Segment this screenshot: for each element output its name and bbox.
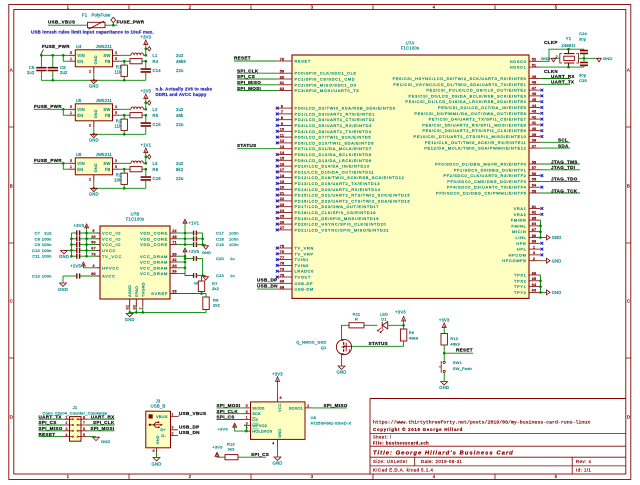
svg-text:6: 6	[281, 104, 283, 108]
net label RESET (J1)	[39, 432, 64, 437]
net label SPI_CS	[237, 74, 277, 79]
svg-text:D: D	[10, 415, 13, 420]
svg-text:DDR1 and AVCC happy: DDR1 and AVCC happy	[156, 92, 207, 97]
svg-text:Date: 2019-08-31: Date: 2019-08-31	[421, 459, 463, 464]
svg-text:SPI_CS: SPI_CS	[217, 415, 235, 420]
svg-text:GND: GND	[552, 258, 562, 263]
svg-text:1: 1	[70, 56, 72, 61]
svg-text:30p: 30p	[579, 73, 587, 78]
net label SPI_MOSI (U8)	[217, 403, 245, 408]
svg-text:PD4/LCD_D6/UART1_TX/EINTD4: PD4/LCD_D6/UART1_TX/EINTD4	[295, 129, 372, 134]
ground (U7B left caps)	[59, 250, 71, 259]
ground (HPCOMFB)	[541, 258, 562, 263]
svg-text:71: 71	[172, 241, 177, 245]
svg-text:55: 55	[532, 178, 537, 182]
svg-text:VRA1: VRA1	[514, 206, 527, 211]
svg-text:PD19/LCD_DE/SPI0_MOSI/EINTD19: PD19/LCD_DE/SPI0_MOSI/EINTD19	[295, 216, 380, 221]
net label SPI_MISO (J1)	[39, 426, 64, 431]
wire U7B VCC_DRAM rail	[177, 255, 187, 274]
power +1V1 (U7B core rail)	[183, 219, 200, 233]
svg-text:22: 22	[280, 197, 285, 201]
svg-text:+1V1: +1V1	[140, 143, 151, 148]
wire R11 to LED	[364, 324, 378, 326]
svg-text:11: 11	[280, 133, 284, 137]
svg-text:22u: 22u	[176, 122, 184, 127]
ground symbol under U5	[89, 134, 99, 142]
svg-text:C24: C24	[579, 31, 588, 36]
net label FUSE_PWR (U4)	[40, 44, 70, 55]
wire SVREF	[177, 292, 207, 295]
svg-text:2: 2	[89, 176, 91, 181]
IC U7B F1C100s (power pins)	[91, 212, 177, 310]
resistor R7	[198, 276, 219, 294]
svg-text:PD5/LCD_D7/TWI1_SCK/EINTD5: PD5/LCD_D7/TWI1_SCK/EINTD5	[295, 135, 372, 140]
svg-text:25: 25	[280, 215, 285, 219]
svg-text:D: D	[627, 415, 630, 420]
capacitor C23	[185, 273, 235, 278]
svg-text:+2V5: +2V5	[140, 89, 151, 94]
svg-text:+3V3: +3V3	[439, 318, 450, 323]
svg-text:86: 86	[532, 234, 537, 238]
svg-text:R6: R6	[153, 167, 159, 172]
wire U7B bottom grounds	[128, 307, 144, 314]
svg-text:22u: 22u	[176, 176, 184, 181]
power flag at +2V5	[145, 101, 151, 105]
net label SPI_MOSI	[237, 86, 277, 91]
svg-text:C11: C11	[32, 254, 40, 259]
svg-text:L2: L2	[153, 107, 159, 112]
svg-text:GND: GND	[89, 138, 99, 143]
svg-text:PD16/LCD_D22/UART2_CTS/TWI2_SD: PD16/LCD_D22/UART2_CTS/TWI2_SDA/EINTD16	[295, 198, 411, 203]
svg-text:2: 2	[89, 68, 91, 73]
net label RESET (switch)	[443, 348, 473, 355]
svg-text:PD8/LCD_D12/DA_BCLK/EINTD8: PD8/LCD_D12/DA_BCLK/EINTD8	[295, 152, 372, 157]
svg-text:SPI_CLK: SPI_CLK	[217, 409, 239, 414]
svg-text:30: 30	[172, 252, 177, 256]
svg-text:24MHz: 24MHz	[561, 43, 575, 48]
svg-text:5: 5	[70, 158, 72, 163]
svg-text:A: A	[10, 68, 13, 73]
net label SPI_CLK (J1)	[87, 420, 115, 425]
svg-text:24: 24	[280, 209, 285, 213]
wire FUSE_PWR to U5 VIN/EN	[34, 108, 69, 115]
svg-text:49k9: 49k9	[450, 341, 460, 346]
capacitor C20	[185, 256, 235, 261]
svg-text:SCK: SCK	[252, 411, 261, 416]
svg-text:4: 4	[272, 441, 274, 445]
svg-text:SO/IO1: SO/IO1	[289, 405, 303, 410]
svg-text:22: 22	[172, 229, 177, 233]
svg-text:CLKP: CLKP	[544, 40, 558, 45]
svg-text:7: 7	[281, 110, 283, 114]
svg-text:22u: 22u	[176, 68, 184, 73]
svg-text:TVIN1: TVIN1	[295, 257, 309, 262]
svg-text:GND: GND	[94, 55, 98, 64]
svg-text:5: 5	[70, 104, 72, 109]
svg-text:SW1: SW1	[453, 360, 463, 365]
svg-text:PD9/LCD_D13/DA_LRCK/EINTD9: PD9/LCD_D13/DA_LRCK/EINTD9	[295, 158, 372, 163]
svg-text:C15: C15	[153, 122, 162, 127]
svg-text:R5: R5	[153, 113, 159, 118]
svg-text:USB-DM: USB-DM	[295, 287, 314, 292]
svg-text:LRADC0: LRADC0	[295, 269, 315, 274]
svg-text:D1: D1	[381, 317, 387, 322]
ground (J1 pin 5)	[87, 437, 111, 445]
svg-text:2u2: 2u2	[27, 70, 35, 75]
svg-text:43: 43	[532, 110, 537, 114]
svg-text:50: 50	[91, 241, 96, 245]
svg-text:VCC_DRAM: VCC_DRAM	[140, 265, 168, 270]
svg-text:PD15/LCD_D21/UART2_RTS/TWI2_SC: PD15/LCD_D21/UART2_RTS/TWI2_SCK/EINTD15	[295, 193, 411, 198]
svg-text:76: 76	[280, 250, 285, 254]
net label FUSE_PWR (U6)	[34, 158, 62, 163]
svg-text:67: 67	[91, 247, 96, 251]
svg-text:8: 8	[83, 415, 85, 419]
svg-text:2u2: 2u2	[176, 161, 184, 166]
net label SDA	[541, 143, 571, 148]
svg-text:100n: 100n	[229, 231, 239, 236]
no-connect VRA1/VRA2	[541, 207, 544, 216]
svg-text:https://www.thirtythreeforty.n: https://www.thirtythreeforty.net/posts/2…	[373, 420, 590, 426]
connector J1 Conn_02x04_Counter_Clockwise	[43, 405, 109, 441]
svg-text:1: 1	[67, 474, 70, 479]
svg-text:C17: C17	[216, 231, 225, 236]
svg-text:JTAG_TDO: JTAG_TDO	[551, 177, 578, 182]
svg-text:40: 40	[532, 127, 537, 131]
resistor R10	[441, 334, 460, 354]
capacitor C16	[141, 169, 184, 188]
resistor R6 (feedback top)	[130, 167, 184, 172]
wire U4 SW to inductor	[119, 54, 131, 56]
ground (core caps)	[202, 245, 211, 256]
svg-text:JTAG_TMS: JTAG_TMS	[551, 159, 578, 164]
svg-text:TVGND: TVGND	[140, 282, 145, 297]
polyfuse F1	[82, 12, 111, 29]
wire Q1 source to ground	[341, 355, 343, 366]
svg-text:SVREF: SVREF	[151, 291, 168, 296]
svg-text:L3: L3	[153, 161, 159, 166]
svg-text:57: 57	[532, 166, 537, 170]
svg-text:Rev: 4: Rev: 4	[576, 459, 592, 464]
svg-text:TPY1: TPY1	[514, 284, 526, 289]
wire U5 FB node	[119, 114, 130, 117]
wire feedback to rail	[142, 168, 147, 171]
svg-text:PD2/LCD_D4/UART1_CTS/EINTD2: PD2/LCD_D4/UART1_CTS/EINTD2	[295, 117, 376, 122]
svg-text:PD6/LCD_D10/TWI1_SDA/EINTD6: PD6/LCD_D10/TWI1_SDA/EINTD6	[295, 140, 375, 145]
net label UART_RX (J1)	[87, 414, 115, 419]
capacitor C24	[579, 31, 588, 59]
svg-text:PD7/LCD_D11/DA_MCLK/EINTD7: PD7/LCD_D11/DA_MCLK/EINTD7	[295, 146, 373, 151]
svg-text:PD14/LCD_D20/UART2_RX/EINTD14: PD14/LCD_D20/UART2_RX/EINTD14	[295, 187, 381, 192]
svg-text:TPX2: TPX2	[514, 278, 526, 283]
svg-text:PF3/SDC0_CMD/DBG_DO/EINTF3: PF3/SDC0_CMD/DBG_DO/EINTF3	[447, 179, 526, 184]
wire feedback to rail	[142, 60, 147, 63]
svg-text:SDA: SDA	[558, 143, 569, 148]
svg-text:12: 12	[280, 139, 285, 143]
power +3V3 (LED)	[395, 310, 406, 326]
svg-text:81: 81	[532, 205, 537, 209]
svg-text:HOSC0: HOSC0	[510, 59, 527, 64]
svg-text:CS: CS	[252, 417, 258, 422]
svg-text:J1: J1	[73, 405, 78, 410]
IC U7A F1C100s (GPIO)	[277, 41, 540, 299]
svg-text:20: 20	[91, 235, 96, 239]
svg-text:3: 3	[65, 427, 67, 431]
svg-text:8: 8	[281, 116, 283, 120]
capacitor C6	[48, 54, 68, 82]
svg-text:HPCOMFB: HPCOMFB	[502, 258, 526, 263]
svg-text:USB-DP: USB-DP	[295, 281, 314, 286]
svg-text:VIN: VIN	[77, 107, 85, 112]
svg-text:UVCC: UVCC	[102, 248, 116, 253]
svg-text:37: 37	[532, 144, 537, 148]
svg-text:GND: GND	[552, 235, 562, 240]
wire U7B VDD_CORE rail	[177, 232, 187, 246]
svg-text:JW5211: JW5211	[96, 152, 113, 157]
svg-text:2: 2	[533, 257, 535, 261]
power symbol +1V1	[140, 143, 151, 164]
transistor Q1 Q_NMOS_GSD	[296, 339, 351, 355]
svg-text:4: 4	[65, 433, 67, 437]
svg-text:FUSE_PWR: FUSE_PWR	[42, 44, 70, 49]
svg-text:VCC_IO: VCC_IO	[102, 236, 121, 241]
svg-text:RESET: RESET	[39, 432, 56, 437]
svg-text:63: 63	[532, 289, 537, 293]
svg-text:USB_DN: USB_DN	[179, 430, 200, 435]
svg-text:USB_VBUS: USB_VBUS	[48, 20, 75, 25]
svg-text:78: 78	[280, 262, 285, 266]
svg-text:GND: GND	[541, 56, 551, 61]
svg-text:PD3/LCD_D5/UART1_RX/EINTD3: PD3/LCD_D5/UART1_RX/EINTD3	[295, 123, 373, 128]
svg-text:PE8/CSI_D5/UART2_RX/SPI1_MOSI/: PE8/CSI_D5/UART2_RX/SPI1_MOSI/EINTE8	[422, 122, 526, 127]
no-connect marks PD0-PD6	[276, 107, 279, 145]
svg-text:USB_DN: USB_DN	[257, 284, 278, 289]
capacitors C17-C19	[185, 231, 239, 248]
ground (TPY2)	[541, 290, 562, 295]
resistor R8	[130, 294, 221, 313]
svg-text:PE1/CSI_VSYNC/LCD_D1/TWI2_SDA/: PE1/CSI_VSYNC/LCD_D1/TWI2_SDA/UART0_TX/E…	[393, 82, 526, 87]
svg-text:16: 16	[280, 162, 285, 166]
note: DDR voltage text	[156, 87, 213, 97]
svg-text:62: 62	[280, 87, 285, 91]
power +3V3 (R13)	[212, 444, 223, 457]
svg-text:48: 48	[532, 81, 537, 85]
inductor L3	[131, 161, 184, 166]
svg-text:L1: L1	[153, 53, 159, 58]
regulator U6 JW5211	[68, 152, 119, 182]
svg-text:GND: GND	[603, 56, 613, 61]
svg-text:GND: GND	[89, 192, 99, 197]
svg-text:SPI_MISO: SPI_MISO	[237, 80, 261, 85]
svg-text:PE6/CSI_D3/PWM1/DA_OUT/OWA_OUT: PE6/CSI_D3/PWM1/DA_OUT/OWA_OUT/EINTE6	[414, 111, 526, 116]
connector J3 USB_B	[146, 399, 178, 454]
svg-text:USB inrush rules limit input c: USB inrush rules limit input capacitance…	[31, 29, 154, 34]
svg-text:PC2/SPI0_MISO/SDC1_D0: PC2/SPI0_MISO/SDC1_D0	[295, 82, 357, 87]
svg-text:GND: GND	[552, 290, 562, 295]
power flag at +3V3	[145, 47, 151, 51]
wire touch panel pins to ground bus	[539, 275, 542, 294]
svg-text:3: 3	[533, 251, 535, 255]
svg-text:GND: GND	[59, 254, 69, 259]
svg-text:64: 64	[532, 283, 537, 287]
net label UART_TX	[541, 80, 575, 85]
svg-text:1: 1	[171, 412, 173, 416]
svg-text:C13: C13	[32, 274, 41, 279]
svg-text:PE3/CSI_D0/LCD_D9/DA_BCLK/RSB_: PE3/CSI_D0/LCD_D9/DA_BCLK/RSB_SCK/EINTE3	[408, 93, 526, 98]
svg-text:69: 69	[280, 280, 285, 284]
net label USB_DP (J3)	[179, 424, 199, 429]
svg-text:1: 1	[246, 416, 248, 420]
wire inductor to output node	[143, 108, 147, 111]
svg-text:44: 44	[532, 104, 537, 108]
svg-text:C23: C23	[216, 273, 225, 278]
LED D1	[377, 311, 388, 332]
svg-text:PE11/CLK_OUT/TWI0_SCK/IR_RX/EI: PE11/CLK_OUT/TWI0_SCK/IR_RX/EINTE11	[425, 140, 527, 145]
resistor R9	[400, 325, 418, 346]
svg-text:100n: 100n	[42, 274, 52, 279]
svg-text:75: 75	[280, 244, 285, 248]
svg-text:F1: F1	[82, 12, 88, 17]
resistor R11	[349, 311, 364, 328]
svg-text:VCC_DRAM: VCC_DRAM	[140, 271, 168, 276]
svg-text:65: 65	[532, 277, 537, 281]
svg-text:VRA2: VRA2	[514, 212, 527, 217]
svg-text:RESET: RESET	[234, 55, 251, 60]
svg-text:C18: C18	[216, 236, 225, 241]
svg-text:EN: EN	[77, 113, 83, 118]
svg-text:10k: 10k	[114, 177, 122, 182]
svg-text:SW: SW	[103, 53, 110, 58]
resistor R2 (feedback bottom)	[114, 115, 127, 135]
svg-text:2: 2	[89, 122, 91, 127]
inductor L1	[131, 53, 184, 58]
svg-text:HPR: HPR	[516, 241, 526, 246]
svg-text:B: B	[627, 184, 630, 189]
svg-text:Sheet: /: Sheet: /	[373, 435, 392, 440]
svg-text:U6: U6	[76, 152, 82, 157]
net label USB_VBUS (J3)	[178, 411, 206, 417]
svg-text:+1V1: +1V1	[189, 221, 200, 226]
svg-text:EN: EN	[77, 59, 83, 64]
ground (dram caps)	[194, 259, 208, 286]
svg-text:41: 41	[532, 121, 537, 125]
svg-text:PD11/LCD_D15/DA_OUT/EINTD11: PD11/LCD_D15/DA_OUT/EINTD11	[295, 169, 375, 174]
regulator U4 JW5211	[68, 44, 119, 74]
svg-text:PE0/CSI_HSYNC/LCD_D0/TWI2_SCK/: PE0/CSI_HSYNC/LCD_D0/TWI2_SCK/UART0_RX/E…	[393, 76, 527, 81]
svg-text:100n: 100n	[42, 236, 52, 241]
regulator U5 JW5211	[68, 98, 119, 128]
svg-text:SCL: SCL	[558, 138, 568, 143]
svg-text:89: 89	[132, 305, 136, 310]
net label FUSE_PWR (top)	[105, 20, 145, 26]
svg-text:USB_DP: USB_DP	[179, 424, 199, 429]
svg-text:FUSE_PWR: FUSE_PWR	[117, 20, 145, 25]
svg-text:SPI_MISO: SPI_MISO	[39, 426, 63, 431]
svg-text:2u2: 2u2	[60, 70, 68, 75]
net label SPI_CS (J1)	[39, 420, 64, 425]
svg-text:C9: C9	[34, 242, 40, 247]
svg-text:60: 60	[280, 75, 285, 79]
ground (LINL)	[541, 235, 562, 240]
svg-text:USB_DP: USB_DP	[257, 278, 277, 283]
svg-text:+3V3: +3V3	[212, 444, 223, 449]
wire U6 SW to inductor	[119, 162, 131, 164]
no-connect PF2	[541, 174, 544, 177]
wire U7B VCC rails	[70, 232, 96, 258]
power +3V3 (reset)	[439, 318, 450, 334]
svg-text:PE5/CSI_D2/LCD_D17/DA_IN/EINTE: PE5/CSI_D2/LCD_D17/DA_IN/EINTE5	[438, 105, 527, 110]
svg-text:85: 85	[532, 216, 537, 220]
ground (crystal left)	[541, 56, 556, 62]
svg-text:20: 20	[280, 186, 285, 190]
svg-text:36k: 36k	[176, 113, 184, 118]
svg-text:R10: R10	[450, 336, 459, 341]
svg-text:GND: GND	[202, 251, 211, 255]
svg-text:SPI_CS: SPI_CS	[237, 74, 255, 79]
svg-text:HPVCC: HPVCC	[102, 265, 120, 270]
resistor R3 (feedback bottom)	[114, 169, 127, 189]
svg-text:42: 42	[532, 115, 537, 119]
svg-text:23: 23	[280, 203, 285, 207]
svg-text:88: 88	[532, 240, 537, 244]
svg-text:32: 32	[172, 258, 177, 262]
svg-text:CLKN: CLKN	[544, 69, 558, 74]
svg-text:49k9: 49k9	[409, 335, 419, 340]
svg-text:SPI_CLK: SPI_CLK	[93, 420, 115, 425]
wire feedback to rail	[142, 114, 147, 117]
svg-text:UART_TX: UART_TX	[39, 414, 63, 419]
wire Q1 drain up	[342, 325, 350, 339]
svg-text:SW_Push: SW_Push	[453, 366, 472, 371]
svg-text:79: 79	[280, 273, 285, 277]
svg-text:HOSC1: HOSC1	[510, 65, 527, 70]
svg-text:5: 5	[115, 164, 117, 169]
svg-text:6: 6	[83, 427, 85, 431]
svg-text:2: 2	[65, 421, 67, 425]
svg-text:4: 4	[433, 474, 436, 479]
net label CLKN	[541, 66, 585, 74]
svg-text:PD10/LCD_D14/DA_IN/EINTD10: PD10/LCD_D14/DA_IN/EINTD10	[295, 164, 370, 169]
net label SPI_CS (R13)	[238, 452, 269, 457]
svg-text:VIN: VIN	[77, 53, 85, 58]
net label SCL	[541, 138, 571, 143]
no-connect HPR/HPL/HPCOM	[541, 242, 544, 256]
svg-text:2u2: 2u2	[176, 107, 184, 112]
svg-text:GND: GND	[58, 287, 68, 292]
ground rail under U6	[93, 182, 146, 190]
svg-text:+3V3: +3V3	[272, 371, 283, 376]
svg-text:TPY2: TPY2	[514, 290, 526, 295]
svg-text:B: B	[10, 184, 13, 189]
no-connect marks TV pins	[276, 247, 279, 279]
svg-text:U5: U5	[76, 98, 82, 103]
svg-text:WP/IO2: WP/IO2	[252, 423, 267, 428]
net label JTAG_TDI	[541, 165, 581, 170]
svg-text:46: 46	[532, 92, 537, 96]
net label UART_TX (J1)	[39, 414, 64, 419]
switch SW1 SW_Push	[439, 353, 472, 373]
svg-text:PE7/CSI_D4/UART2_TX/SPI1_CS/EI: PE7/CSI_D4/UART2_TX/SPI1_CS/EINTE7	[429, 117, 527, 122]
svg-text:PF4/SDC0_D3/UART0_TX/EINTF4: PF4/SDC0_D3/UART0_TX/EINTF4	[447, 185, 527, 190]
svg-text:PC0/SPI0_CLK/SDC1_CLK: PC0/SPI0_CLK/SDC1_CLK	[295, 71, 357, 76]
decoupling capacitors C7-C11	[32, 230, 80, 258]
ground (U7B bottom)	[125, 313, 135, 322]
svg-text:47: 47	[532, 86, 537, 90]
net label USB_DP (U7A)	[257, 278, 277, 284]
note: USB inrush text	[31, 29, 154, 34]
svg-text:F1C100s: F1C100s	[401, 46, 419, 51]
svg-text:PD1/LCD_D3/UART1_RTS/EINTD1: PD1/LCD_D3/UART1_RTS/EINTD1	[295, 111, 376, 116]
